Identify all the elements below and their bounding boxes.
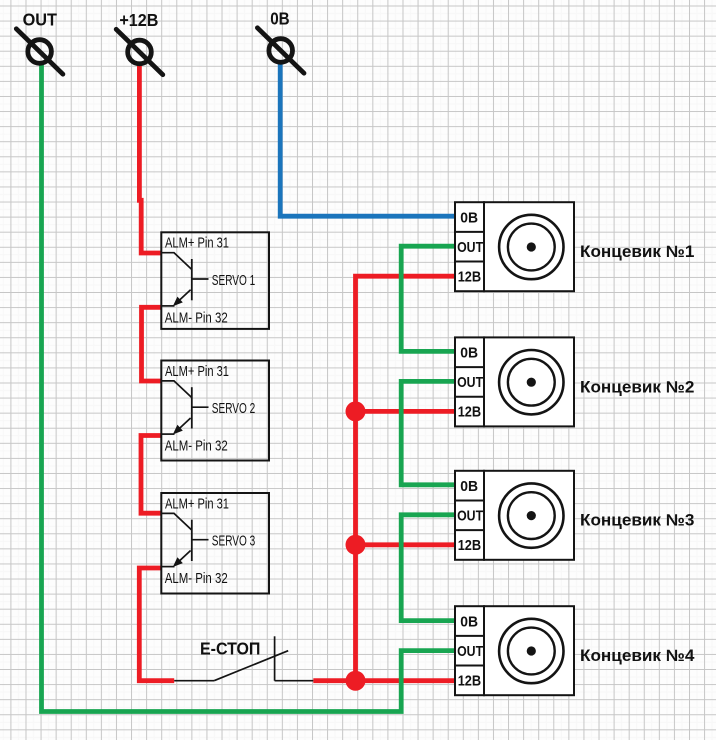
svg-text:Концевик №3: Концевик №3 — [580, 512, 694, 530]
transistor Q1 collector lead and diagonal — [161, 253, 191, 269]
switch E-STOP left lead — [174, 680, 214, 682]
svg-text:ALM- Pin 32: ALM- Pin 32 — [165, 309, 228, 326]
terminal +12V circle — [128, 40, 152, 64]
wire red 12V trunk with branch to 12V pin of switch 1 — [356, 276, 456, 681]
svg-text:0В: 0В — [460, 478, 478, 495]
svg-text:0В: 0В — [460, 209, 478, 226]
pin divider 0V/OUT of SW3 — [455, 500, 484, 502]
switch SW4 center dot — [527, 646, 536, 655]
pin divider 0V/OUT of SW4 — [455, 635, 484, 637]
switch SW4 outer circle — [499, 619, 563, 683]
svg-text:SERVO 1: SERVO 1 — [212, 272, 255, 289]
transistor Q3 collector lead and diagonal — [161, 513, 191, 529]
junction dot 12V at switch 3 row — [346, 535, 366, 555]
wire red E-STOP output to junction to 12V pin of switch 4 — [313, 678, 455, 683]
transistor Q1 emitter arrowhead — [173, 297, 183, 307]
switch SW3 outer circle — [499, 483, 563, 547]
svg-text:OUT: OUT — [457, 508, 483, 525]
limit switch block SW4 pin box — [455, 606, 484, 695]
pin divider 0V/OUT of SW2 — [455, 366, 484, 368]
switch SW2 center dot — [527, 378, 536, 387]
switch E-STOP right lead — [275, 680, 314, 682]
terminal 0V circle — [269, 39, 293, 63]
svg-text:0В: 0В — [460, 613, 478, 630]
limit switch block SW4 body box — [484, 606, 574, 695]
svg-text:OUT: OUT — [457, 374, 483, 391]
svg-text:Концевик №2: Концевик №2 — [580, 378, 694, 396]
transistor Q2 emitter bottom lead — [161, 433, 174, 435]
limit switch block SW3 pin box — [455, 471, 484, 560]
transistor Q1 emitter bottom lead — [161, 305, 174, 307]
pin divider OUT/12V of SW2 — [455, 396, 484, 398]
svg-text:ALM+ Pin 31: ALM+ Pin 31 — [165, 495, 229, 512]
svg-text:OUT: OUT — [23, 10, 58, 30]
svg-text:12В: 12В — [458, 537, 482, 554]
wire green OUT switch 3 to 0V switch 4 — [401, 515, 455, 621]
servo driver box U3 outline — [161, 493, 269, 594]
svg-text:12В: 12В — [458, 404, 482, 421]
transistor Q3 base lead to SERVO label — [192, 539, 209, 541]
wire green OUT terminal long run to OUT pin of switch 4 — [42, 63, 456, 712]
svg-text:ALM+ Pin 31: ALM+ Pin 31 — [165, 363, 229, 380]
wire red +12V terminal to ALM+ Pin 31 of SERVO 1 — [139, 63, 161, 253]
switch SW2 inner circle — [508, 359, 555, 406]
switch SW1 center dot — [527, 242, 536, 251]
transistor Q1 base lead to SERVO label — [192, 278, 209, 280]
transistor Q2 emitter line — [175, 418, 191, 433]
switch SW3 inner circle — [508, 492, 555, 539]
transistor Q3 emitter bottom lead — [161, 566, 174, 568]
transistor Q1 base bar — [191, 259, 193, 300]
wire red ALM- SERVO 1 to ALM+ SERVO 2 — [142, 307, 162, 381]
transistor Q2 base bar — [191, 387, 193, 428]
svg-text:Концевик №4: Концевик №4 — [580, 647, 695, 665]
wire blue 0V terminal to 0V pin of switch 1 — [280, 62, 455, 216]
switch SW1 inner circle — [508, 224, 555, 271]
pin divider OUT/12V of SW4 — [455, 665, 484, 667]
transistor Q2 collector lead and diagonal — [161, 381, 191, 397]
limit switch block SW3 body box — [484, 471, 574, 560]
switch SW2 outer circle — [499, 350, 563, 414]
transistor Q2 base lead to SERVO label — [192, 406, 209, 408]
svg-text:+12В: +12В — [119, 10, 158, 30]
svg-text:ALM- Pin 32: ALM- Pin 32 — [165, 438, 228, 455]
wire green OUT switch 1 to 0V switch 2 — [401, 246, 455, 351]
svg-text:SERVO 3: SERVO 3 — [212, 533, 255, 550]
wire red ALM- SERVO 2 to ALM+ SERVO 3 — [141, 436, 162, 514]
terminal OUT circle — [28, 40, 52, 64]
transistor Q3 emitter arrowhead — [173, 557, 183, 567]
transistor Q3 base bar — [191, 520, 193, 561]
terminal OUT slash — [16, 29, 63, 74]
svg-text:SERVO 2: SERVO 2 — [212, 400, 255, 417]
switch SW3 center dot — [527, 511, 536, 520]
svg-text:12В: 12В — [458, 672, 482, 689]
svg-text:OUT: OUT — [457, 239, 483, 256]
svg-text:Е-СТОП: Е-СТОП — [200, 638, 260, 658]
transistor Q1 emitter line — [175, 290, 191, 305]
wire green OUT switch 2 to 0V switch 3 — [401, 381, 455, 484]
switch E-STOP right contact vertical — [274, 636, 276, 680]
junction dot 12V at switch 2 row — [346, 401, 366, 421]
svg-text:ALM- Pin 32: ALM- Pin 32 — [165, 570, 228, 587]
limit switch block SW2 body box — [484, 337, 574, 426]
pin divider 0V/OUT of SW1 — [455, 231, 484, 233]
pin divider OUT/12V of SW1 — [455, 261, 484, 263]
switch E-STOP blade — [214, 651, 288, 681]
terminal 0V slash — [257, 28, 304, 73]
wire red ALM- SERVO 3 to E-STOP left contact — [139, 568, 174, 681]
servo driver box U2 outline — [161, 361, 269, 461]
limit switch block SW1 pin box — [455, 202, 484, 291]
transistor Q2 emitter arrowhead — [173, 425, 183, 435]
junction dot 12V at E-STOP output row — [346, 671, 366, 691]
svg-text:ALM+ Pin 31: ALM+ Pin 31 — [165, 235, 229, 252]
svg-text:Концевик №1: Концевик №1 — [580, 243, 694, 261]
switch SW1 outer circle — [499, 215, 563, 279]
wire red branch to 12V pin of switch 3 — [356, 542, 456, 547]
transistor Q3 emitter line — [175, 551, 191, 566]
svg-text:OUT: OUT — [457, 643, 483, 660]
switch SW4 inner circle — [508, 628, 555, 675]
terminal +12V slash — [116, 29, 163, 74]
servo driver box U1 outline — [161, 232, 269, 329]
svg-text:0В: 0В — [460, 345, 478, 362]
limit switch block SW1 body box — [484, 202, 574, 291]
wire red branch to 12V pin of switch 2 — [356, 409, 456, 414]
svg-text:0В: 0В — [270, 9, 289, 29]
limit switch block SW2 pin box — [455, 337, 484, 426]
pin divider OUT/12V of SW3 — [455, 529, 484, 531]
svg-text:12В: 12В — [458, 268, 482, 285]
